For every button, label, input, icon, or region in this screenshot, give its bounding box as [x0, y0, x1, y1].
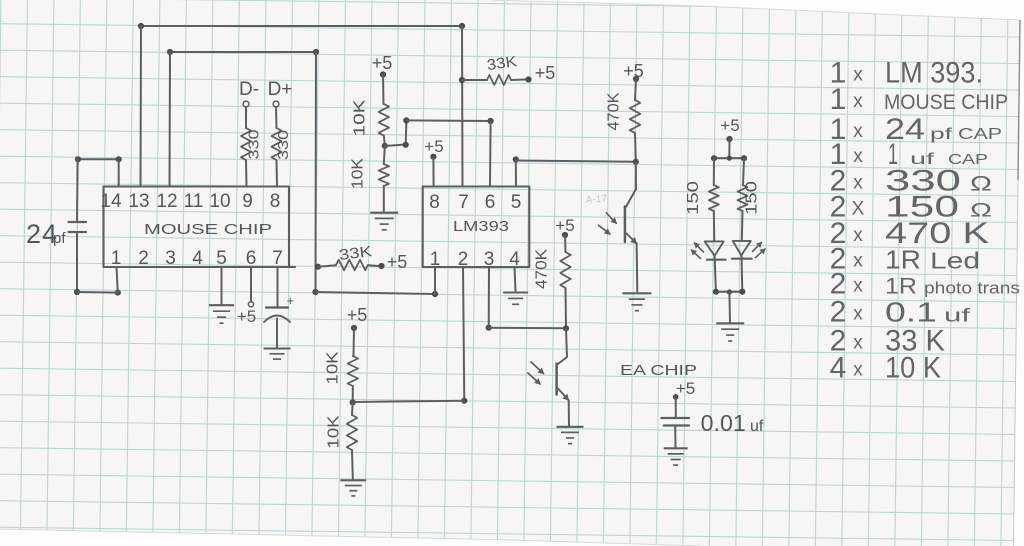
svg-text:7: 7	[458, 192, 469, 213]
svg-text:2: 2	[138, 248, 149, 269]
svg-text:10 K: 10 K	[885, 352, 941, 385]
svg-text:10K: 10K	[326, 415, 343, 448]
svg-text:photo trans: photo trans	[924, 279, 1020, 298]
svg-text:13: 13	[128, 191, 149, 212]
svg-text:+5: +5	[535, 63, 556, 83]
svg-text:330: 330	[246, 130, 263, 160]
svg-text:x: x	[853, 333, 863, 354]
svg-text:+: +	[287, 293, 295, 308]
svg-text:7: 7	[272, 248, 283, 269]
svg-text:1: 1	[111, 248, 122, 269]
svg-text:Led: Led	[930, 248, 980, 274]
svg-text:12: 12	[156, 191, 177, 212]
svg-text:1R: 1R	[885, 274, 917, 299]
svg-text:10: 10	[209, 191, 230, 212]
svg-text:150: 150	[685, 181, 702, 215]
svg-text:10K: 10K	[352, 99, 369, 136]
svg-text:+5: +5	[676, 379, 695, 398]
svg-text:LM 393.: LM 393.	[885, 57, 983, 90]
svg-text:pf: pf	[53, 230, 66, 247]
svg-text:pf: pf	[930, 126, 953, 143]
svg-text:6: 6	[246, 248, 257, 269]
svg-text:x: x	[853, 65, 863, 86]
svg-text:1: 1	[430, 249, 441, 270]
svg-text:1: 1	[830, 83, 847, 116]
svg-text:CAP: CAP	[958, 126, 1002, 143]
svg-text:MOUSE CHIP: MOUSE CHIP	[884, 91, 1008, 114]
svg-text:0.01: 0.01	[701, 410, 746, 436]
svg-text:uf: uf	[944, 306, 972, 326]
svg-text:+5: +5	[720, 116, 739, 135]
svg-text:MOUSE CHIP: MOUSE CHIP	[144, 221, 272, 238]
svg-text:3: 3	[165, 248, 176, 269]
svg-text:10K: 10K	[325, 351, 342, 384]
svg-text:x: x	[853, 251, 863, 272]
svg-text:5: 5	[511, 192, 522, 213]
svg-text:470K: 470K	[606, 92, 623, 130]
svg-text:x: x	[853, 121, 863, 142]
svg-text:x: x	[853, 304, 863, 325]
svg-text:x: x	[853, 360, 863, 381]
svg-text:0.1: 0.1	[885, 297, 937, 328]
svg-text:x: x	[853, 276, 863, 297]
svg-text:X: X	[852, 199, 865, 220]
svg-text:x: x	[853, 225, 863, 246]
svg-text:LM393: LM393	[453, 218, 509, 235]
svg-text:+5: +5	[424, 137, 443, 156]
svg-text:1R: 1R	[885, 245, 921, 275]
svg-text:150: 150	[744, 181, 761, 215]
svg-text:4: 4	[830, 352, 847, 385]
svg-text:EA CHIP: EA CHIP	[620, 362, 697, 379]
svg-text:4: 4	[192, 248, 203, 269]
svg-text:+5: +5	[372, 53, 393, 73]
svg-text:D-: D-	[239, 79, 259, 100]
svg-text:D+: D+	[268, 79, 293, 100]
svg-text:Ω: Ω	[970, 173, 992, 196]
svg-text:9: 9	[242, 191, 253, 212]
svg-text:+5: +5	[347, 305, 368, 325]
svg-text:A-17: A-17	[585, 194, 607, 206]
svg-text:x: x	[853, 173, 863, 194]
svg-text:x: x	[853, 91, 863, 112]
svg-text:11: 11	[184, 191, 204, 212]
svg-text:8: 8	[429, 192, 440, 213]
svg-text:470K: 470K	[534, 249, 551, 289]
svg-text:+5: +5	[237, 307, 256, 326]
svg-text:6: 6	[485, 192, 496, 213]
svg-text:8: 8	[270, 191, 281, 212]
svg-text:uf: uf	[750, 418, 764, 435]
svg-text:330: 330	[275, 130, 292, 160]
svg-text:5: 5	[216, 248, 227, 269]
svg-text:10K: 10K	[350, 158, 367, 189]
svg-text:x: x	[853, 146, 863, 167]
svg-text:+5: +5	[387, 252, 408, 272]
svg-text:14: 14	[100, 191, 122, 212]
